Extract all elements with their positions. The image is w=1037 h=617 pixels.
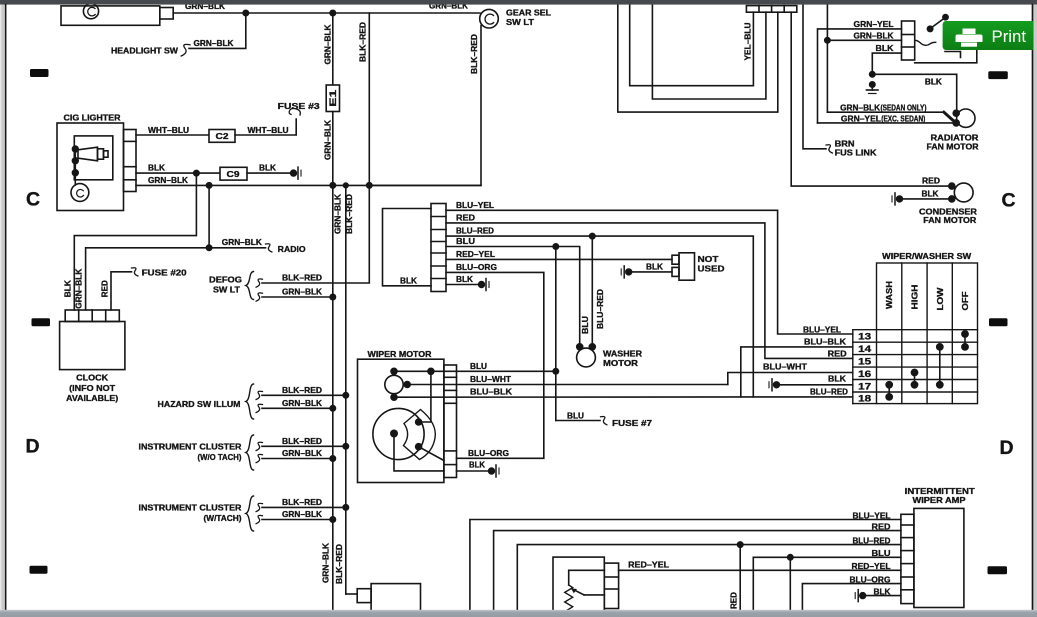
brace defog (246, 272, 254, 300)
svg-text:BLU–ORG: BLU–ORG (468, 448, 509, 458)
svg-text:GRN–BLK: GRN–BLK (332, 194, 342, 234)
wire BLK to not-used (632, 271, 672, 273)
node BLK / clock branch (194, 170, 199, 175)
svg-text:BLK: BLK (876, 43, 894, 53)
svg-text:GRN–BLK: GRN–BLK (322, 120, 332, 160)
table contact dots OFF column (962, 331, 968, 337)
svg-text:GRN–BLK: GRN–BLK (282, 287, 322, 297)
svg-text:GRN–BLK: GRN–BLK (194, 38, 234, 48)
brace instr2 (246, 496, 254, 531)
svg-text:BLK–RED: BLK–RED (282, 385, 322, 395)
wire BLU wiper rail (394, 370, 556, 372)
svg-text:GRN–BLK: GRN–BLK (854, 31, 894, 41)
wire BLU-RED branch down (739, 545, 741, 610)
margin tick left 2 (32, 318, 51, 326)
svg-text:BLU–BLK: BLU–BLK (470, 387, 512, 397)
svg-text:FUS LINK: FUS LINK (835, 147, 877, 157)
wire BRN fus link (803, 4, 826, 149)
svg-text:BLU–WHT: BLU–WHT (763, 362, 807, 372)
wire BLK-RED defog (262, 185, 369, 283)
svg-text:RED: RED (922, 176, 940, 186)
wire BLK-RED riser main (345, 185, 347, 594)
node GRN-BLK bus / radio riser (206, 183, 211, 188)
wire curl right of radiator connector (915, 40, 936, 45)
svg-text:GRN–BLK: GRN–BLK (321, 543, 331, 583)
svg-text:BLU: BLU (470, 361, 487, 371)
washer motor terminals (577, 344, 583, 350)
resistor arrow (573, 589, 585, 595)
wire diagonal top right (930, 16, 947, 28)
cig lighter inner element (74, 136, 113, 180)
wire BLU branch down (789, 557, 791, 610)
wire BLK to radiator motor (872, 74, 956, 113)
wire BLU to fuse 7 (556, 420, 600, 422)
svg-text:BLK: BLK (925, 76, 942, 86)
svg-text:RED: RED (828, 348, 847, 358)
svg-text:WIPER/WASHER SW: WIPER/WASHER SW (882, 251, 971, 261)
wire GRN-BLK hazard (262, 407, 333, 409)
node instr2 grn-blk (330, 517, 335, 522)
svg-text:BLK: BLK (259, 163, 276, 173)
svg-text:DEFOG: DEFOG (209, 274, 242, 284)
node defog grn-blk junction (330, 294, 335, 299)
wire GRN-BLK to clock (86, 185, 210, 310)
svg-text:(W/TACH): (W/TACH) (204, 513, 242, 523)
component CIG LIGHTER box (57, 123, 124, 211)
wire BLU-RED rail to table row 18 (446, 236, 753, 397)
node bus / BLK-RED riser1 (367, 183, 372, 188)
svg-text:GRN–BLK: GRN–BLK (73, 269, 83, 309)
curl instr2 blk-red (256, 503, 262, 511)
curl hazard grn-blk (256, 404, 262, 412)
connector radiator (3 cells) (902, 21, 915, 60)
node BLK ground tap (870, 72, 875, 77)
svg-text:Print: Print (992, 27, 1027, 46)
wire BLU rail (446, 247, 580, 347)
margin tick right 2 (989, 318, 1008, 326)
svg-text:CIG LIGHTER: CIG LIGHTER (64, 113, 121, 123)
connector curl brn fus link (826, 145, 832, 153)
headlight sw connector (160, 8, 173, 20)
svg-text:BLK–RED: BLK–RED (357, 22, 367, 62)
component INTERMITTENT WIPER AMP box (914, 508, 964, 607)
motor WASHER MOTOR (577, 348, 596, 367)
svg-text:BLK–RED: BLK–RED (282, 436, 322, 446)
wire GRN-YEL corner (818, 29, 902, 123)
svg-text:BLU–YEL: BLU–YEL (456, 200, 494, 210)
svg-text:BLK: BLK (456, 274, 473, 284)
wire BLU drop to wiper + fuse 7 (555, 247, 557, 421)
svg-text:GRN–BLK: GRN–BLK (840, 103, 880, 113)
page border left (5, 5, 7, 611)
table contact dots LOW column (937, 344, 943, 350)
wire BLK-RED instr2 (262, 506, 346, 508)
wire BLK short rail (446, 284, 479, 286)
wire wiper tap (584, 594, 604, 596)
svg-text:RED–YEL: RED–YEL (628, 560, 669, 570)
relay box hidden behind print (915, 50, 977, 63)
wiper motor connector column (444, 365, 457, 478)
wire RED amp (494, 531, 901, 610)
node hazard grn-blk (330, 406, 335, 411)
svg-text:GRN–BLK: GRN–BLK (148, 175, 188, 185)
svg-text:BLK–RED: BLK–RED (334, 544, 344, 584)
svg-text:WHT–BLU: WHT–BLU (248, 125, 289, 135)
curl instr2 grn-blk (256, 515, 262, 523)
brace hazard (246, 384, 254, 419)
connector curl headlight sw (181, 44, 190, 56)
svg-text:BLK: BLK (922, 188, 939, 198)
svg-text:BLK: BLK (148, 163, 165, 173)
svg-text:C: C (26, 189, 40, 211)
wire BLK-RED into bottom connector (346, 593, 357, 595)
node junction top wire / headlight branch (243, 10, 248, 15)
wire BLK wiper pin (457, 470, 490, 472)
terminal BLK condenser (897, 196, 903, 202)
connector pins not-used (672, 255, 679, 264)
svg-text:RED: RED (872, 522, 891, 532)
svg-text:BLK–RED: BLK–RED (282, 273, 322, 283)
connector YEL-BLU harness (4 cells) (746, 6, 796, 13)
svg-text:FAN MOTOR: FAN MOTOR (923, 215, 977, 225)
svg-text:13: 13 (858, 332, 871, 342)
svg-text:NOT: NOT (698, 254, 720, 264)
wire GRN-BLK radio branch (209, 247, 265, 249)
wire GRN-BLK to connector (827, 39, 901, 41)
wire BLU-YEL rail to table row 13 (446, 210, 853, 334)
wire BLK row17 (779, 384, 852, 386)
svg-text:15: 15 (858, 356, 871, 366)
margin tick left 1 (30, 69, 49, 77)
wire GRN-BLK riser lower (to page bottom) (332, 185, 334, 610)
motor RADIATOR FAN MOTOR (957, 109, 975, 127)
svg-text:INSTRUMENT CLUSTER: INSTRUMENT CLUSTER (139, 442, 242, 452)
wire U inner (630, 4, 754, 86)
node condenser RED terminal (949, 183, 955, 189)
svg-text:C9: C9 (227, 169, 240, 179)
connector E1 (326, 85, 339, 112)
curl defog grn-blk (256, 293, 262, 301)
svg-text:WIPER MOTOR: WIPER MOTOR (368, 349, 432, 359)
svg-text:YEL–BLU: YEL–BLU (743, 23, 753, 61)
wire GRN-BLK sedan only (827, 111, 944, 113)
wire GRN-BLK riser mid (332, 112, 334, 186)
terminal BLK wiper (489, 468, 495, 474)
svg-text:BLU–WHT: BLU–WHT (470, 374, 511, 384)
svg-text:MOTOR: MOTOR (603, 358, 638, 368)
wire BLK-RED from gear sel lamp down (369, 26, 481, 186)
wire GRN-BLK instr2 (262, 519, 333, 521)
connector curl fuse 20 (132, 268, 138, 276)
wire headlight sw branch (189, 13, 246, 48)
svg-text:WIPER AMP: WIPER AMP (913, 495, 966, 505)
node instr1 blk-red (343, 444, 348, 449)
wire GRN-YEL exc sedan (818, 122, 956, 124)
svg-text:OFF: OFF (960, 292, 970, 311)
component NOT USED box (679, 253, 695, 280)
headlight sw bulb symbol (83, 4, 98, 19)
node GRN-BLK bus / riser (330, 183, 335, 188)
svg-text:BLU–RED: BLU–RED (595, 289, 605, 329)
cig lighter socket circle (71, 184, 89, 202)
headlight switch assembly box (61, 6, 160, 25)
wire U outer (618, 4, 778, 112)
svg-text:GRN–BLK: GRN–BLK (222, 237, 262, 247)
wire BLK amp (866, 595, 901, 597)
node bus / BLK-RED riser2 (344, 183, 349, 188)
svg-text:14: 14 (858, 344, 871, 354)
node BLU amp branch (788, 555, 793, 560)
wire GRN-BLK instr1 (262, 458, 333, 460)
svg-text:BLU–RED: BLU–RED (456, 226, 494, 236)
cig lighter contact dots (72, 146, 78, 152)
curl hazard blk-red (256, 391, 262, 399)
wiper motor small armature circle (385, 375, 403, 393)
svg-text:BLU: BLU (456, 236, 475, 246)
browser bottom bar (0, 610, 1037, 617)
wire WHT-BLU to fuse3 (235, 119, 296, 135)
table WIPER/WASHER SW grid (853, 263, 978, 404)
wiper armature contact dots (391, 368, 397, 374)
wire motor center to BLK pin (394, 434, 444, 471)
connector C9 (220, 167, 247, 180)
node BLU / fuse7 branch (553, 244, 558, 249)
svg-text:BLK: BLK (62, 280, 72, 297)
wire RED-YEL amp (619, 569, 901, 571)
wire BLU-YEL amp (470, 520, 901, 611)
component resistor box (553, 557, 604, 612)
svg-text:16: 16 (858, 369, 871, 379)
svg-text:BLU–YEL: BLU–YEL (803, 324, 841, 334)
svg-text:18: 18 (858, 394, 871, 404)
svg-text:RED–YEL: RED–YEL (852, 561, 891, 571)
wire RED clock to fuse20 (111, 272, 132, 310)
svg-text:D: D (1000, 437, 1014, 459)
wire BLU-RED drop to washer motor (591, 236, 593, 347)
svg-text:SW LT: SW LT (506, 17, 535, 27)
lamp GEAR SEL SW LT (480, 9, 499, 28)
component WIPER MOTOR box (358, 359, 444, 482)
svg-text:C: C (1002, 190, 1016, 212)
table contact dots WASH column (886, 382, 892, 388)
svg-text:BLK: BLK (469, 460, 485, 470)
svg-text:RED: RED (456, 213, 475, 223)
wire BLU-ORG rail to wiper motor (446, 272, 544, 458)
cig lighter connector column (124, 130, 137, 192)
terminal BLK amp (860, 593, 866, 599)
svg-text:(INFO NOT: (INFO NOT (69, 383, 116, 393)
wire BLU-RED amp (517, 545, 901, 610)
svg-text:AVAILABLE): AVAILABLE) (66, 393, 118, 403)
ground symbol (867, 82, 879, 94)
curl instr1 blk-red (256, 442, 262, 450)
wire BLU-WHT wiper to table row 16 (407, 384, 728, 386)
node BLU-RED amp branch (738, 542, 743, 547)
node instr1 grn-blk (330, 456, 335, 461)
connector curl fuse 7 (601, 417, 607, 425)
wire red-yel inside box (569, 570, 605, 585)
connector wiper amp (7 cells) (901, 514, 914, 603)
wire RED-YEL rail to not-used (446, 258, 672, 260)
svg-text:BLK: BLK (400, 275, 417, 285)
curl defog blk-red (256, 279, 262, 287)
svg-text:HAZARD SW ILLUM: HAZARD SW ILLUM (158, 399, 241, 409)
svg-text:BLU: BLU (567, 411, 584, 421)
margin tick right 1 (988, 71, 1008, 79)
wiper gear big circle (373, 408, 424, 459)
svg-text:(EXC. SEDAN): (EXC. SEDAN) (881, 114, 925, 123)
connector upper harness (7 pins) (431, 204, 446, 292)
wire park contact to BLU-ORG pin (419, 447, 444, 461)
terminal BLK splice (291, 170, 297, 176)
wire BLK condenser (902, 198, 951, 200)
node BLU wiper rail junction (553, 369, 558, 374)
wire GRN-BLK top rail to gear sel lamp (173, 12, 480, 14)
svg-text:BLU: BLU (872, 548, 891, 558)
svg-text:GRN–BLK: GRN–BLK (322, 24, 332, 64)
connector resistor box (604, 563, 618, 608)
svg-text:BLU: BLU (580, 316, 590, 334)
resistor zigzag (565, 585, 573, 614)
svg-text:GRN–BLK: GRN–BLK (282, 448, 322, 458)
wire BLK to terminal (247, 172, 292, 174)
component box bottom left (cut) (371, 584, 420, 612)
svg-text:RED: RED (100, 280, 110, 297)
wire BLK-RED instr1 (262, 445, 346, 447)
terminal BLK not-used (626, 269, 632, 275)
svg-text:FUSE #7: FUSE #7 (612, 418, 652, 428)
wire GRN-BLK horizontal bus (136, 184, 481, 186)
node BLU-RED / washer branch (590, 233, 595, 238)
terminal BLK upper connector (479, 282, 485, 288)
svg-text:LOW: LOW (935, 287, 945, 310)
svg-text:BLK–RED: BLK–RED (282, 497, 322, 507)
node GRN-YEL diag junction (927, 26, 932, 31)
svg-text:BLK: BLK (874, 586, 891, 596)
terminal BLK row17 (774, 382, 780, 388)
svg-text:FUSE #3: FUSE #3 (278, 101, 320, 111)
svg-text:WHT–BLU: WHT–BLU (148, 125, 189, 135)
svg-text:HIGH: HIGH (910, 285, 920, 310)
svg-text:HEADLIGHT SW: HEADLIGHT SW (111, 46, 178, 56)
svg-text:GRN–BLK: GRN–BLK (282, 398, 322, 408)
svg-text:E1: E1 (328, 90, 338, 107)
node hazard blk-red (343, 393, 348, 398)
wire BLU amp (753, 557, 901, 610)
wire BLK-RED hazard (262, 394, 346, 396)
svg-text:BLU–ORG: BLU–ORG (456, 262, 497, 272)
wiper park switch sector (404, 410, 436, 460)
node radio tap (206, 245, 211, 250)
wire GRN-BLK riser from top (826, 4, 828, 112)
page border right (1032, 5, 1034, 611)
wire U middle (652, 4, 766, 99)
browser top bar (0, 0, 1037, 5)
svg-text:RADIO: RADIO (278, 244, 306, 254)
svg-text:C2: C2 (216, 131, 229, 141)
cig lighter plug symbol (78, 147, 108, 161)
svg-text:BLK–RED: BLK–RED (344, 194, 354, 234)
motor CONDENSER FAN MOTOR (954, 183, 973, 202)
node junction top wire / GRN-BLK riser (330, 10, 335, 15)
wiper park contacts (416, 419, 422, 425)
brace instr1 (246, 435, 254, 470)
connector bottom left (357, 589, 371, 603)
margin tick left 3 (30, 566, 48, 574)
right gray strip (1033, 5, 1037, 617)
margin tick right 3 (988, 566, 1008, 574)
svg-text:GRN–BLK: GRN–BLK (282, 509, 322, 519)
connector curl radio (266, 244, 272, 252)
svg-text:BLU–ORG: BLU–ORG (850, 574, 891, 584)
node GRN-BLK radiator (825, 38, 830, 43)
svg-text:FAN MOTOR: FAN MOTOR (927, 142, 979, 152)
svg-text:CLOCK: CLOCK (76, 373, 108, 383)
connector C2 (209, 130, 235, 143)
wire RED rail to table row 15 (446, 223, 853, 359)
svg-text:USED: USED (698, 263, 725, 273)
svg-text:BLU–RED: BLU–RED (853, 535, 891, 545)
print button (943, 21, 1033, 50)
svg-text:(W/O TACH): (W/O TACH) (198, 452, 242, 462)
wiper gear center dot (391, 430, 397, 436)
wire BLK-RED riser top (368, 13, 370, 185)
table contact dots HIGH column (911, 369, 917, 375)
svg-text:D: D (26, 436, 40, 458)
wire GRN-BLK riser upper (332, 13, 334, 85)
wire park contact to BLU rail (419, 371, 431, 422)
svg-text:17: 17 (858, 381, 871, 391)
svg-text:BLU–BLK: BLU–BLK (804, 337, 846, 347)
svg-text:GRN–YEL: GRN–YEL (841, 113, 881, 123)
component CLOCK box (60, 322, 125, 370)
svg-text:BLU–RED: BLU–RED (810, 387, 848, 397)
svg-text:BLK: BLK (828, 373, 846, 383)
svg-text:RED: RED (729, 592, 739, 609)
node instr2 blk-red (343, 505, 348, 510)
wire BLK to clock (74, 173, 196, 310)
svg-text:FUSE #20: FUSE #20 (142, 267, 187, 277)
wire BLU-ORG amp (802, 584, 901, 610)
wire BLK (cig) (136, 172, 220, 174)
wire GRN-BLK defog (262, 296, 333, 298)
svg-text:GRN–YEL: GRN–YEL (854, 19, 894, 29)
curl instr1 grn-blk (256, 454, 262, 462)
svg-text:WASH: WASH (884, 281, 894, 309)
connector curl fuse 3 (289, 109, 300, 115)
svg-text:SW LT: SW LT (213, 285, 241, 295)
svg-text:BLU–YEL: BLU–YEL (853, 510, 891, 520)
svg-text:BLK: BLK (646, 261, 663, 271)
svg-text:INSTRUMENT CLUSTER: INSTRUMENT CLUSTER (139, 503, 242, 513)
connector clock (4 cells) (65, 310, 119, 322)
wire bracket loop left of upper connector (383, 209, 432, 286)
wire YEL-BLU 4th to condenser RED (791, 12, 952, 186)
svg-text:(SEDAN ONLY): (SEDAN ONLY) (881, 104, 927, 113)
wire thick diagonal to motor (944, 112, 956, 123)
wire BLK radiator (872, 53, 901, 74)
wire WHT-BLU (136, 134, 209, 136)
wire BLU-BLK wiper to table row 18 (394, 396, 853, 398)
wire riser to table row 14 (741, 347, 853, 397)
svg-text:BLK–RED: BLK–RED (469, 34, 479, 74)
svg-text:RED–YEL: RED–YEL (456, 249, 495, 259)
